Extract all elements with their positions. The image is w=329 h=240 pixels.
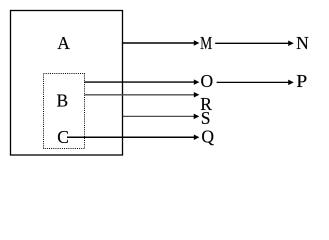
wire box-to-S — [123, 115, 195, 117]
arrowhead at O — [194, 79, 200, 85]
arrowhead at R — [194, 92, 200, 98]
arrowhead at Q — [194, 135, 200, 141]
inner dotted box B/C — [44, 74, 85, 149]
wire B-to-R — [84, 94, 195, 96]
svg-text:O: O — [201, 71, 214, 91]
arrowhead at S — [194, 114, 200, 120]
svg-text:N: N — [296, 33, 309, 53]
svg-text:P: P — [296, 71, 307, 91]
svg-text:B: B — [57, 90, 69, 110]
wire C-to-Q — [67, 136, 195, 138]
arrowhead at N — [288, 41, 294, 47]
svg-text:A: A — [57, 33, 70, 53]
wire O-to-P — [217, 81, 289, 83]
arrowhead at P — [288, 80, 294, 86]
wire B-to-O — [84, 81, 195, 83]
svg-text:Q: Q — [201, 127, 214, 147]
svg-text:S: S — [201, 108, 211, 128]
wire box-to-M — [123, 42, 195, 44]
svg-text:M: M — [200, 33, 212, 53]
wire M-to-N — [215, 42, 289, 44]
outer box — [11, 11, 123, 156]
arrowhead at M — [194, 40, 200, 46]
